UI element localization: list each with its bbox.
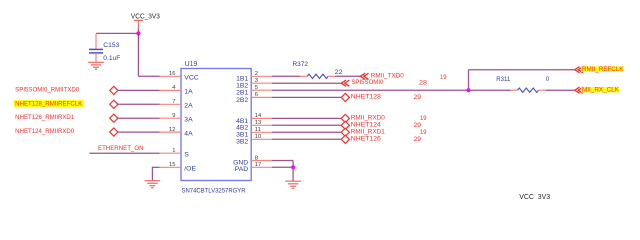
highlight box MII_RX_CLK (581, 87, 619, 92)
svg-text:4B2: 4B2 (236, 125, 248, 132)
svg-text:U19: U19 (185, 61, 198, 68)
junction on pin 5 net (466, 88, 470, 92)
U19 pin 6 (2B2) name, number, stub (236, 92, 272, 104)
svg-text:3A: 3A (184, 117, 193, 124)
resistor R311 0 (496, 77, 550, 93)
wire U19 to NHET128 (272, 96, 341, 98)
junction at VCC_3V3 node (136, 31, 140, 35)
capacitor C153 0.1uF (89, 33, 121, 62)
svg-text:R372: R372 (293, 62, 309, 68)
svg-text:ETHERNET_ON: ETHERNET_ON (98, 146, 144, 152)
wire junction up (468, 70, 470, 91)
U19 pin 11 (3B1) name, number, stub (236, 127, 272, 139)
svg-text:VCC_3V3: VCC_3V3 (519, 194, 550, 200)
wire NHET124_RMIIRXD0 to U19 (118, 131, 160, 133)
off-page chevron RMII_REFCLK (575, 67, 583, 73)
wire U19 pin 17 PAD right (272, 166, 293, 168)
wire junction down to ground (292, 167, 294, 181)
svg-text:0.1uF: 0.1uF (103, 56, 120, 62)
wire NHET126_RMIIRXD1 to U19 (118, 117, 160, 119)
svg-text:1B2: 1B2 (236, 83, 248, 90)
svg-text:RMII_TXD0: RMII_TXD0 (371, 73, 405, 79)
wire U19 pin 5 to junction (272, 89, 469, 91)
svg-text:29: 29 (414, 123, 422, 129)
svg-text:2A: 2A (184, 103, 193, 110)
U19 pin 17 (PAD) name, number, stub (235, 162, 272, 173)
svg-text:NHET126: NHET126 (351, 136, 382, 142)
wire U19 to NHET124 (272, 124, 341, 126)
wire U19 to RMII_RXD1 (272, 131, 341, 133)
svg-text:19: 19 (420, 116, 427, 122)
off-page connector diamond RMII_RXD1 (341, 128, 349, 136)
wire to RMII_REFCLK connector (469, 69, 575, 71)
svg-text:28: 28 (419, 80, 428, 86)
U19 pin 12 (4A) name, number, stub (160, 127, 194, 138)
off-page chevron MII_RX_CLK (575, 87, 583, 93)
ground at /OE (145, 181, 161, 188)
svg-text:29: 29 (414, 137, 422, 143)
U19 pin 2 (1B1) name, number, stub (236, 71, 272, 83)
svg-text:1A: 1A (184, 89, 193, 96)
wire SPI5SOMI0_RMIITXD0 to U19 (118, 89, 160, 91)
wire U19 pin 3 to SPI5SOMI0 connector (272, 82, 341, 84)
U19 pin 7 (2A) name, number, stub (160, 99, 194, 110)
off-page connector diamond NHET128_RMIIREFCLK (110, 100, 118, 108)
highlight box RMII_REFCLK (581, 66, 624, 72)
off-page connector diamond NHET126_RMIIRXD1 (110, 114, 118, 122)
off-page chevron RMII_TXD0 (360, 73, 368, 79)
off-page connector diamond NHET124 (341, 121, 349, 129)
wire to U19 pin 16 (138, 75, 159, 77)
U19 pin 5 (2B1) name, number, stub (236, 85, 272, 97)
U19 pin 14 (4B1) name, number, stub (236, 113, 272, 125)
wire R311 to MII_RX_CLK connector (546, 89, 575, 91)
U19 pin 13 (4B2) name, number, stub (236, 120, 272, 132)
ground under C153 (88, 62, 104, 69)
svg-text:RMII_REFCLK: RMII_REFCLK (582, 67, 624, 73)
wire U19 to RMII_RXD0 (272, 117, 341, 119)
U19 pin 16 (VCC) name, number, stub (169, 71, 199, 82)
svg-text:22: 22 (335, 70, 344, 76)
svg-text:MII_RX_CLK: MII_RX_CLK (582, 88, 619, 94)
junction GND/PAD (291, 165, 295, 169)
svg-text:3B1: 3B1 (236, 132, 248, 139)
svg-text:R311: R311 (496, 77, 511, 83)
wire NHET128_RMIIREFCLK to U19 (118, 103, 160, 105)
wire R372 to RMII_TXD0 connector (335, 75, 360, 77)
svg-text:VCC_3V3: VCC_3V3 (131, 13, 160, 20)
svg-text:PAD: PAD (235, 166, 249, 173)
svg-text:19: 19 (440, 75, 447, 81)
wire U19 pin 8 GND right and down (272, 160, 293, 162)
svg-text:RMII_RXD1: RMII_RXD1 (351, 129, 386, 135)
wire ETHERNET_ON to U19 pin 1 (89, 152, 159, 154)
svg-text:NHET124: NHET124 (351, 122, 382, 128)
svg-text:C153: C153 (103, 43, 120, 49)
U19 pin 1 (S) name, number, stub (160, 148, 190, 159)
off-page connector diamond NHET128 (341, 93, 349, 101)
svg-text:4A: 4A (184, 130, 193, 137)
U19 pin 9 (3A) name, number, stub (160, 113, 194, 124)
ground under GND/PAD (285, 181, 301, 188)
svg-text:SN74CBTLV3257RGYR: SN74CBTLV3257RGYR (182, 188, 246, 195)
U19 pin 3 (1B2) name, number, stub (236, 78, 272, 90)
svg-text:/OE: /OE (184, 166, 196, 173)
U19 pin 4 (1A) name, number, stub (160, 85, 194, 96)
svg-text:NHET128_RMIIREFCLK: NHET128_RMIIREFCLK (15, 101, 82, 107)
svg-text:19: 19 (420, 130, 427, 136)
wire junction to R311 (469, 89, 511, 91)
svg-text:2B1: 2B1 (236, 90, 248, 97)
svg-text:SPI5SOMI0_RMIITXD0: SPI5SOMI0_RMIITXD0 (15, 87, 80, 93)
power symbol VCC_3V3 (131, 13, 160, 29)
wire U19 pin 2 to R372 (272, 75, 300, 77)
svg-text:16: 16 (169, 71, 175, 77)
wire junction to capacitor C153 (96, 32, 138, 34)
svg-text:NHET124_RMIIRXD0: NHET124_RMIIRXD0 (15, 129, 75, 135)
off-page connector diamond RMII_RXD0 (341, 114, 349, 122)
off-page connector diamond SPI5SOMI0_RMIITXD0 (110, 86, 118, 94)
mux IC U19 SN74CBTLV3257RGYR body (181, 69, 251, 181)
off-page chevron SPI5SOMI0 (341, 80, 349, 86)
highlight box NHET128_RMIIREFCLK (14, 100, 84, 107)
svg-text:NHET128: NHET128 (351, 94, 382, 100)
svg-text:S: S (184, 152, 189, 159)
wire U19 pin 15 /OE to ground (152, 166, 159, 168)
off-page connector diamond NHET124_RMIIRXD0 (110, 128, 118, 136)
wire VCC_3V3 vertical down to pin 16 corner (137, 29, 139, 76)
svg-text:3B2: 3B2 (236, 139, 248, 146)
wire U19 to NHET126 (272, 138, 341, 140)
U19 pin 8 (GND) name, number, stub (233, 155, 272, 166)
svg-text:VCC: VCC (184, 75, 198, 82)
svg-text:RMII_RXD0: RMII_RXD0 (351, 115, 386, 121)
svg-text:SPI5SOMI0: SPI5SOMI0 (351, 80, 384, 86)
U19 pin 15 (/OE) name, number, stub (160, 162, 197, 173)
resistor R372 22 (293, 62, 344, 78)
off-page connector diamond NHET126 (341, 135, 349, 143)
U19 pin 10 (3B2) name, number, stub (236, 134, 272, 146)
svg-text:NHET126_RMIIRXD1: NHET126_RMIIRXD1 (15, 115, 75, 121)
svg-text:29: 29 (414, 95, 422, 101)
svg-text:2B2: 2B2 (236, 97, 248, 104)
